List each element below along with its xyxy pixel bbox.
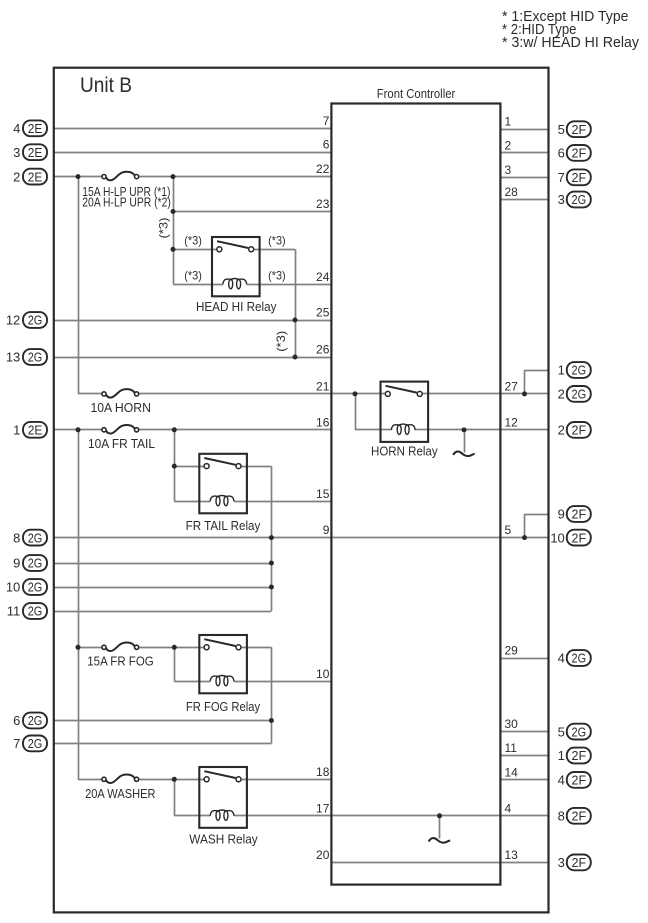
svg-text:2F: 2F <box>572 146 587 161</box>
svg-text:25: 25 <box>316 306 330 320</box>
svg-text:18: 18 <box>316 765 330 779</box>
svg-text:10A HORN: 10A HORN <box>90 401 151 415</box>
svg-text:Unit B: Unit B <box>80 74 132 97</box>
svg-text:2F: 2F <box>572 855 587 870</box>
svg-text:10A FR TAIL: 10A FR TAIL <box>88 437 155 451</box>
svg-text:5: 5 <box>558 122 565 137</box>
svg-text:1: 1 <box>505 115 512 129</box>
svg-text:7: 7 <box>13 736 20 751</box>
svg-text:2G: 2G <box>28 350 43 365</box>
svg-text:26: 26 <box>316 343 330 357</box>
svg-text:2E: 2E <box>28 423 43 438</box>
svg-text:FR TAIL Relay: FR TAIL Relay <box>186 519 261 533</box>
svg-text:20A H-LP UPR (*2): 20A H-LP UPR (*2) <box>82 196 171 210</box>
svg-text:2F: 2F <box>572 773 587 788</box>
svg-text:2G: 2G <box>572 387 587 402</box>
svg-text:2G: 2G <box>572 192 587 207</box>
svg-text:6: 6 <box>323 138 330 152</box>
svg-text:(*3): (*3) <box>275 331 288 352</box>
svg-text:2F: 2F <box>572 170 587 185</box>
svg-text:6: 6 <box>13 713 20 728</box>
svg-text:4: 4 <box>558 651 565 666</box>
svg-text:2G: 2G <box>572 724 587 739</box>
svg-text:2G: 2G <box>28 556 43 571</box>
svg-text:7: 7 <box>323 114 330 128</box>
svg-text:2G: 2G <box>28 736 43 751</box>
svg-text:9: 9 <box>13 556 20 571</box>
svg-text:1: 1 <box>558 748 565 763</box>
svg-text:9: 9 <box>558 507 565 522</box>
svg-text:2F: 2F <box>572 809 587 824</box>
svg-text:(*3): (*3) <box>268 234 286 247</box>
svg-text:30: 30 <box>505 717 519 731</box>
svg-text:3: 3 <box>13 145 20 160</box>
svg-text:2: 2 <box>558 387 565 402</box>
svg-text:2E: 2E <box>28 145 43 160</box>
svg-text:4: 4 <box>13 121 20 136</box>
svg-text:FR FOG Relay: FR FOG Relay <box>186 700 261 714</box>
svg-text:10: 10 <box>550 530 564 545</box>
svg-text:24: 24 <box>316 270 330 284</box>
svg-text:5: 5 <box>505 523 512 537</box>
svg-text:2F: 2F <box>572 423 587 438</box>
svg-text:7: 7 <box>558 170 565 185</box>
svg-text:HEAD HI Relay: HEAD HI Relay <box>196 300 277 314</box>
svg-text:13: 13 <box>6 350 20 365</box>
svg-text:2G: 2G <box>28 580 43 595</box>
svg-text:2E: 2E <box>28 169 43 184</box>
svg-text:2F: 2F <box>572 748 587 763</box>
svg-text:10: 10 <box>316 667 330 681</box>
svg-text:11: 11 <box>7 604 21 619</box>
svg-text:2E: 2E <box>28 121 43 136</box>
svg-text:5: 5 <box>558 724 565 739</box>
svg-text:2: 2 <box>558 423 565 438</box>
svg-text:2G: 2G <box>572 363 587 378</box>
svg-text:8: 8 <box>558 809 565 824</box>
svg-text:(*3): (*3) <box>184 234 202 247</box>
svg-text:2F: 2F <box>572 530 587 545</box>
svg-text:(*3): (*3) <box>158 217 171 238</box>
svg-text:2: 2 <box>505 138 512 152</box>
svg-text:21: 21 <box>316 379 330 393</box>
svg-text:6: 6 <box>558 146 565 161</box>
svg-text:4: 4 <box>558 773 565 788</box>
svg-text:22: 22 <box>316 162 330 176</box>
svg-text:27: 27 <box>505 379 519 393</box>
svg-text:12: 12 <box>6 313 20 328</box>
svg-text:20A WASHER: 20A WASHER <box>85 787 155 801</box>
svg-text:28: 28 <box>505 185 519 199</box>
svg-text:WASH Relay: WASH Relay <box>189 832 258 846</box>
svg-text:13: 13 <box>505 848 519 862</box>
svg-text:10: 10 <box>6 580 20 595</box>
svg-text:2G: 2G <box>28 313 43 328</box>
svg-text:2F: 2F <box>572 122 587 137</box>
svg-text:20: 20 <box>316 848 330 862</box>
svg-text:* 3:w/ HEAD HI Relay: * 3:w/ HEAD HI Relay <box>502 35 640 51</box>
svg-text:2G: 2G <box>28 713 43 728</box>
svg-text:3: 3 <box>558 192 565 207</box>
svg-text:12: 12 <box>505 415 519 429</box>
svg-text:2G: 2G <box>28 530 43 545</box>
svg-text:2F: 2F <box>572 507 587 522</box>
svg-text:8: 8 <box>13 530 20 545</box>
svg-text:3: 3 <box>505 163 512 177</box>
svg-text:9: 9 <box>323 523 330 537</box>
svg-text:29: 29 <box>505 644 519 658</box>
svg-text:14: 14 <box>505 765 519 779</box>
svg-text:4: 4 <box>505 801 512 815</box>
svg-text:2G: 2G <box>572 651 587 666</box>
svg-text:16: 16 <box>316 415 330 429</box>
svg-text:(*3): (*3) <box>268 269 286 282</box>
svg-text:HORN Relay: HORN Relay <box>371 445 438 459</box>
svg-text:1: 1 <box>558 363 565 378</box>
svg-text:23: 23 <box>316 197 330 211</box>
svg-text:17: 17 <box>316 801 330 815</box>
svg-text:3: 3 <box>558 855 565 870</box>
svg-text:2: 2 <box>13 169 20 184</box>
svg-text:15: 15 <box>316 487 330 501</box>
svg-text:(*3): (*3) <box>184 269 202 282</box>
svg-text:11: 11 <box>505 741 518 755</box>
svg-text:2G: 2G <box>28 604 43 619</box>
svg-text:Front Controller: Front Controller <box>377 86 456 101</box>
svg-text:15A FR FOG: 15A FR FOG <box>87 655 153 669</box>
svg-text:1: 1 <box>13 423 20 438</box>
